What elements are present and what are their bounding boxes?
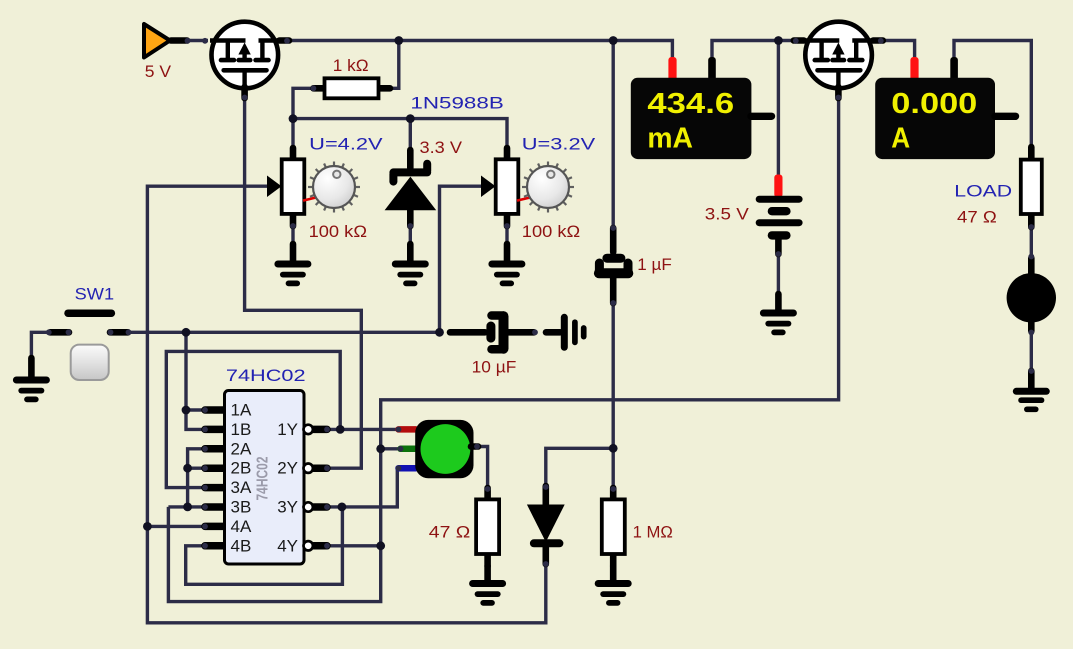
- ground lamp: [1016, 391, 1046, 409]
- ground pot P2: [492, 244, 522, 283]
- svg-text:10 µF: 10 µF: [472, 358, 517, 376]
- svg-text:1Y: 1Y: [277, 420, 298, 439]
- ground 10 uF rotated: [543, 317, 584, 347]
- svg-text:1N5988B: 1N5988B: [410, 94, 503, 113]
- wire 4B input to 3Y output loop: [186, 507, 343, 584]
- svg-text:1 MΩ: 1 MΩ: [633, 524, 673, 542]
- junction 3B input: [183, 503, 192, 512]
- wire 3Y output to blue pin: [328, 468, 402, 507]
- wire SW1 node to 1A and 1B inputs: [186, 332, 206, 429]
- diode D2: [527, 484, 565, 567]
- svg-text:4B: 4B: [231, 536, 252, 555]
- wire 47 Ohm resistor to ground: [486, 554, 489, 572]
- ammeter M2 0.000 A: [875, 57, 1015, 159]
- svg-text:2A: 2A: [231, 439, 252, 458]
- junction node row at zener: [406, 114, 415, 123]
- battery 3.5 V: [759, 175, 799, 312]
- svg-text:47 Ω: 47 Ω: [957, 208, 997, 226]
- zener diode 1N5988B: [385, 150, 437, 229]
- junction LED green pin: [376, 444, 385, 453]
- ground battery: [763, 313, 793, 332]
- svg-text:434.6: 434.6: [647, 88, 734, 120]
- svg-text:74HC02: 74HC02: [255, 457, 272, 501]
- wire battery bottom to ground: [777, 238, 780, 298]
- wire 3B input stub: [168, 505, 206, 508]
- potentiometer P2 100 kOhm: [481, 148, 574, 229]
- svg-text:LOAD: LOAD: [954, 181, 1012, 200]
- junction 3Y output: [338, 503, 347, 512]
- wire 2B input stub: [188, 467, 206, 470]
- junction 2B input: [183, 464, 192, 473]
- wire zener top pin: [409, 119, 412, 152]
- junction node row left: [289, 114, 298, 123]
- wire node to 1 MOhm resistor: [612, 448, 615, 490]
- wire ammeter M1 minus up to top rail and to Q2: [712, 41, 806, 59]
- wire LOAD resistor to lamp: [1030, 214, 1033, 276]
- resistor LOAD 47 Ohm: [1021, 147, 1042, 230]
- svg-text:3A: 3A: [231, 478, 252, 497]
- ground zener: [395, 244, 425, 283]
- svg-text:SW1: SW1: [75, 285, 114, 304]
- wire 2A 2B 3B tie: [188, 449, 206, 507]
- IC U1 74HC02: [202, 391, 330, 565]
- potentiometer P1 100 kOhm: [267, 148, 360, 229]
- svg-text:5 V: 5 V: [145, 63, 171, 81]
- voltage source 5 V input triangle: [144, 24, 208, 58]
- wire Q2 drain to ammeter M2 plus: [871, 41, 915, 59]
- junction 4Y output: [376, 541, 385, 550]
- junction top rail at 1 kOhm branch: [394, 36, 403, 45]
- wire 4A input stub to left column: [147, 525, 206, 528]
- svg-text:3B: 3B: [231, 498, 252, 517]
- svg-text:0.000: 0.000: [891, 88, 977, 120]
- svg-text:100 kΩ: 100 kΩ: [522, 223, 580, 241]
- junction top rail at 1 uF branch: [609, 36, 618, 45]
- wire 1Y output to LED red pin: [328, 428, 398, 431]
- wire Q1 gate to 2Y output: [245, 96, 362, 468]
- ground 1 MOhm: [598, 584, 628, 603]
- ground 47 Ohm: [473, 584, 503, 603]
- junction SW1 row at 10 uF: [435, 328, 444, 337]
- svg-text:100 kΩ: 100 kΩ: [309, 223, 367, 241]
- svg-text:1A: 1A: [231, 401, 252, 420]
- svg-text:U=4.2V: U=4.2V: [309, 135, 383, 154]
- wire 1 uF capacitor to diode node: [612, 303, 615, 448]
- transistor Q2 P-MOSFET: [793, 22, 884, 101]
- wire diode cathode to bottom rail: [147, 526, 545, 622]
- svg-text:4Y: 4Y: [277, 536, 298, 555]
- wire SW1 left pin to ground: [31, 332, 48, 360]
- wire LED anode to 47 Ohm resistor: [477, 447, 488, 491]
- junction 4A input: [143, 522, 152, 531]
- junction diode node: [609, 444, 618, 453]
- resistor 1 MOhm: [602, 486, 625, 582]
- transistor Q1 P-MOSFET: [210, 22, 290, 101]
- junction top rail at battery branch: [774, 36, 783, 45]
- junction SW1 row at IC branch: [182, 328, 191, 337]
- ammeter M1 434.6 mA: [631, 57, 772, 159]
- wire pot P1 wiper to left column: [147, 186, 268, 526]
- wire zener bottom to ground: [409, 212, 412, 248]
- wire LED green pin stub: [381, 447, 406, 450]
- svg-text:3Y: 3Y: [277, 498, 298, 517]
- svg-text:2B: 2B: [231, 459, 252, 478]
- svg-text:1 µF: 1 µF: [637, 256, 672, 274]
- wire 1 kOhm resistor right pin up to top rail: [388, 41, 399, 89]
- switch SW1: [46, 313, 132, 380]
- junction 1A input: [182, 406, 191, 415]
- wire Q2 gate net to LED green pin and IC: [168, 94, 838, 602]
- wire ammeter M2 minus to LOAD resistor: [954, 41, 1031, 151]
- resistor 47 Ohm LED: [476, 486, 499, 582]
- svg-text:A: A: [891, 123, 910, 155]
- wire 1Y node to 3A input: [166, 351, 340, 487]
- wire 4Y output stub: [328, 544, 381, 547]
- wire SW1 row to 10 uF capacitor: [130, 331, 440, 334]
- wire pot P2 wiper to cap node: [440, 186, 483, 332]
- wire lamp to ground: [1030, 320, 1033, 372]
- wire 1A input stub: [186, 408, 206, 411]
- wire 1 MOhm resistor to ground: [612, 554, 615, 572]
- wire diode anode to node: [546, 448, 613, 490]
- lamp: [1007, 254, 1056, 390]
- wire pot P2 bottom to ground: [505, 214, 508, 248]
- svg-text:4A: 4A: [231, 517, 252, 536]
- svg-text:1 kΩ: 1 kΩ: [333, 57, 369, 75]
- svg-text:47 Ω: 47 Ω: [429, 524, 471, 542]
- junction 1Y output: [336, 425, 345, 434]
- wire battery positive column: [777, 41, 780, 177]
- svg-text:74HC02: 74HC02: [226, 366, 306, 385]
- svg-text:2Y: 2Y: [277, 459, 298, 478]
- svg-text:U=3.2V: U=3.2V: [522, 135, 596, 154]
- wire 1 kOhm resistor left pin to node column: [293, 88, 315, 150]
- ground pot P1: [278, 244, 308, 283]
- wire 1 uF capacitor column from top rail: [612, 41, 615, 229]
- capacitor C1 1 uF: [599, 225, 628, 306]
- svg-text:3.3 V: 3.3 V: [420, 139, 463, 157]
- capacitor C2 10 uF: [450, 316, 538, 350]
- svg-text:1B: 1B: [231, 420, 252, 439]
- wire node row to zener and pot P2 top: [293, 119, 507, 150]
- wire top rail from Q1 drain to ammeter M1 plus: [279, 41, 672, 59]
- wire pot P1 bottom to ground: [291, 214, 294, 248]
- resistor 1 kOhm: [311, 78, 391, 98]
- LED RGB: [396, 420, 480, 478]
- svg-text:mA: mA: [647, 123, 693, 155]
- svg-text:3.5 V: 3.5 V: [705, 206, 749, 224]
- ground SW1: [16, 358, 46, 399]
